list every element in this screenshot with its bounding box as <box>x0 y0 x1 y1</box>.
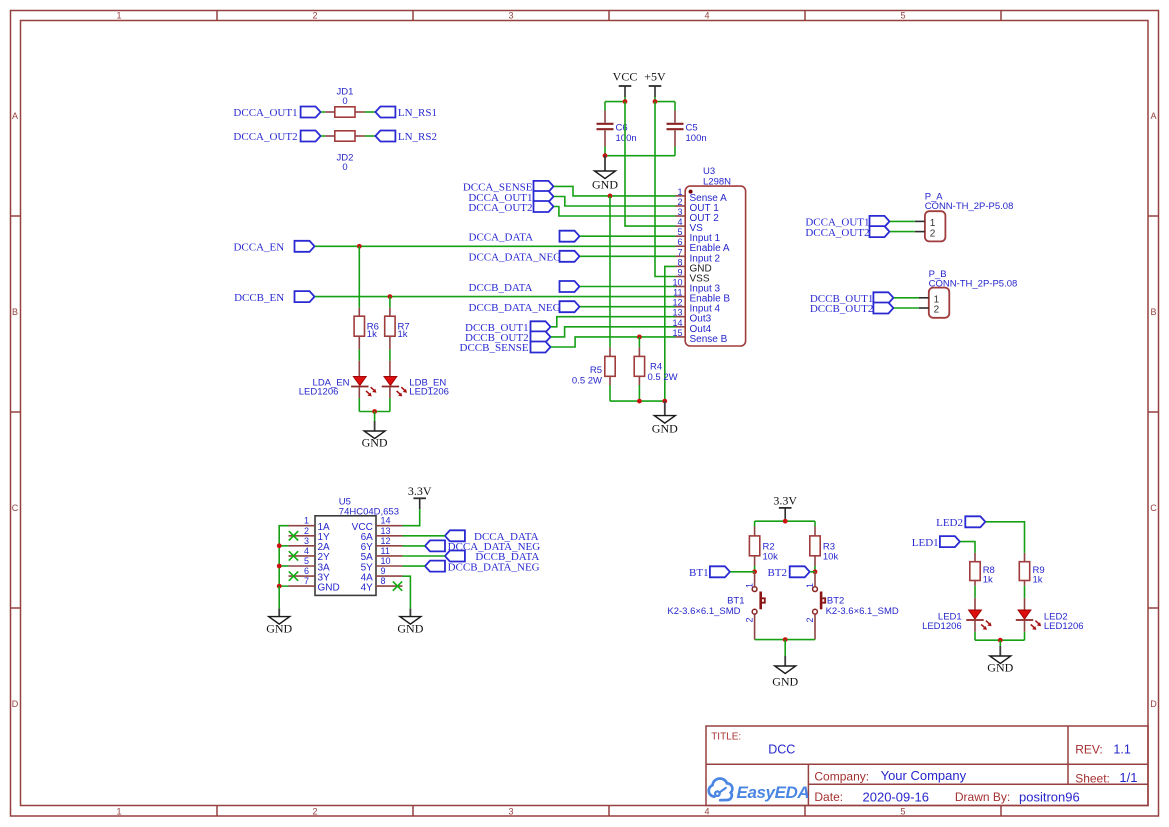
wire to GND (LEDs) <box>999 640 1001 646</box>
wire U5.10 to DCCB_DATA_NEG <box>403 565 426 567</box>
svg-text:C: C <box>1150 503 1157 513</box>
svg-text:3: 3 <box>508 11 513 21</box>
wire R3 to BT2 <box>814 566 816 572</box>
wire R7 to LDB_EN <box>389 350 391 361</box>
pin U3.9 <box>676 276 686 278</box>
pin LDA_EN anode <box>358 361 360 377</box>
wire C6 top <box>604 102 606 111</box>
junction LED GND rail (right) <box>998 638 1003 643</box>
wire DCCA_OUT1 to JD1 <box>321 111 325 113</box>
svg-text:DCCB_DATA_NEG: DCCB_DATA_NEG <box>448 561 540 573</box>
wire LDB_EN to GND rail <box>389 398 391 412</box>
wire BT1 flag to junction <box>730 571 754 573</box>
svg-text:TITLE:: TITLE: <box>711 732 741 743</box>
pin U5.11 <box>376 555 403 557</box>
svg-text:A: A <box>12 111 18 121</box>
LED LDA_EN <box>351 377 376 397</box>
svg-text:DCCB_SENSE: DCCB_SENSE <box>460 342 529 354</box>
wire DCCB_EN down to R7 <box>389 297 391 308</box>
svg-text:9: 9 <box>381 566 386 576</box>
net flag DCCA_OUT2 <box>301 131 321 142</box>
pin P_A.1 <box>915 220 925 222</box>
pin LED1 cathode <box>974 621 976 632</box>
wire DCCA_OUT1 to P_A.1 <box>890 220 915 222</box>
pin R8.1 <box>974 553 976 562</box>
wire GND rail under R4/R5 <box>610 400 665 402</box>
net flag DCCA_OUT1 (U3) <box>534 191 554 202</box>
svg-text:1: 1 <box>805 583 815 588</box>
svg-text:DCC: DCC <box>768 743 795 757</box>
net flag DCCA_SENSE <box>534 181 554 192</box>
svg-text:B: B <box>1150 307 1156 317</box>
wire LDA_EN to GND rail <box>358 398 360 412</box>
svg-text:GND: GND <box>266 621 292 635</box>
svg-text:3: 3 <box>677 207 682 217</box>
junction LED GND rail <box>372 409 377 414</box>
pin R9.1 <box>1024 553 1026 562</box>
resistor JD2 <box>335 131 355 141</box>
resistor R7 <box>385 316 395 336</box>
pin R7.2 <box>389 336 391 349</box>
pin JD2.1 <box>325 135 335 137</box>
svg-text:9: 9 <box>677 268 682 278</box>
svg-text:positron96: positron96 <box>1019 789 1080 804</box>
svg-text:Sheet:: Sheet: <box>1075 771 1110 785</box>
wire rail to U5.5 <box>279 565 288 567</box>
svg-text:K2-3.6×6.1_SMD: K2-3.6×6.1_SMD <box>667 606 740 617</box>
pin R6.1 <box>358 308 360 316</box>
capacitor C5 <box>667 124 684 129</box>
pin U3.11 <box>676 296 686 298</box>
junction +5V <box>653 99 658 104</box>
svg-text:3: 3 <box>508 807 513 817</box>
svg-text:1: 1 <box>116 807 121 817</box>
svg-text:0: 0 <box>342 162 347 173</box>
svg-text:Sense B: Sense B <box>690 334 728 345</box>
wire U5 left GND rail <box>279 526 288 586</box>
wire C6/C5 bottom rail <box>605 155 675 157</box>
pin U5.1 <box>289 525 316 527</box>
net flag LED2 <box>965 516 985 527</box>
net flag BT2 <box>790 566 810 577</box>
svg-text:7: 7 <box>677 247 682 257</box>
wire R4 to GND rail <box>638 385 640 401</box>
pin LED2 cathode <box>1024 621 1026 632</box>
pin LDB_EN cathode <box>389 387 391 398</box>
resistor R6 <box>354 316 364 336</box>
wire R6 to LDA_EN <box>358 350 360 361</box>
wire to GND symbol <box>374 412 376 422</box>
wire to R2 <box>754 521 756 526</box>
svg-text:LN_RS2: LN_RS2 <box>398 131 437 143</box>
pin U3.15 <box>676 336 686 338</box>
wire DCCB_OUT2 to U3.14 <box>551 327 676 337</box>
svg-text:Your Company: Your Company <box>881 768 967 783</box>
wire DCCA_OUT2 to U3.3 <box>554 207 676 217</box>
svg-text:BT1: BT1 <box>727 595 744 606</box>
pin U5.6 <box>289 575 316 577</box>
net flag DCCA_DATA (U5) <box>445 530 465 541</box>
pin R5.1 <box>609 347 611 356</box>
svg-text:Drawn By:: Drawn By: <box>955 790 1010 804</box>
svg-text:DCCB_DATA_NEG: DCCB_DATA_NEG <box>469 302 561 314</box>
wire rail to U5.3 <box>279 545 288 547</box>
net flag LN_RS1 <box>375 107 395 118</box>
svg-text:4Y: 4Y <box>361 582 374 593</box>
pin R7.1 <box>389 308 391 316</box>
svg-text:1k: 1k <box>398 329 408 340</box>
wire U5.11 to DCCB_DATA <box>403 555 445 557</box>
svg-text:GND: GND <box>987 661 1013 675</box>
svg-text:3: 3 <box>304 536 309 546</box>
svg-text:BT2: BT2 <box>767 567 787 579</box>
wire U3.8 GND down <box>665 266 676 401</box>
svg-text:B: B <box>12 307 18 317</box>
wire DCCB_DATA_NEG to U3.12 <box>580 306 676 308</box>
svg-text:6: 6 <box>677 237 682 247</box>
pin U5.13 <box>376 535 403 537</box>
pin U5.12 <box>376 545 403 547</box>
net flag DCCB_DATA (U5) <box>445 551 465 562</box>
wire DCCB_OUT1 to U3.13 <box>551 317 676 327</box>
wire DCCA_EN to U3.6 <box>315 245 676 247</box>
pin U5.10 <box>376 565 403 567</box>
net flag BT1 <box>710 566 730 577</box>
resistor R8 <box>970 562 980 581</box>
svg-text:DCCA_OUT2: DCCA_OUT2 <box>805 227 869 239</box>
svg-text:DCCB_OUT2: DCCB_OUT2 <box>810 303 874 315</box>
wire U5.12 to DCCA_DATA_NEG <box>403 545 426 547</box>
svg-text:REV:: REV: <box>1075 743 1103 757</box>
net flag DCCB_OUT1 (P_B) <box>873 292 893 303</box>
wire +5V stub <box>654 97 656 102</box>
LED LED1 <box>966 610 991 630</box>
wire 3.3V to U5.14 <box>403 509 420 525</box>
pin R3.1 <box>814 527 816 536</box>
svg-text:1/1: 1/1 <box>1119 770 1137 785</box>
svg-text:BT2: BT2 <box>827 595 844 606</box>
wire VCC to C6 <box>605 101 625 103</box>
pin LDB_EN anode <box>389 361 391 377</box>
svg-text:DCCA_EN: DCCA_EN <box>233 242 284 254</box>
pin R2.2 <box>754 556 756 566</box>
wire JD2 to LN_RS2 <box>365 135 376 137</box>
wire DCCB_OUT2 to P_B.2 <box>894 307 919 309</box>
connector P_B body <box>929 288 950 318</box>
svg-text:LED1206: LED1206 <box>1044 621 1084 632</box>
net flag DCCA_OUT2 (P_A) <box>870 226 890 237</box>
svg-text:+5V: +5V <box>644 70 666 84</box>
svg-text:12: 12 <box>381 536 391 546</box>
net flag DCCA_OUT1 <box>301 107 321 118</box>
ground under BT1/BT2 <box>772 656 798 689</box>
wire Sense A rail to R5 <box>609 196 611 347</box>
no-connect U5.6 <box>289 571 298 580</box>
junction R4 bottom <box>637 399 642 404</box>
pin U5.3 <box>289 545 316 547</box>
junction Sense A / R5 <box>608 194 613 199</box>
wire +5V to C5 <box>655 101 675 103</box>
EasyEDA logo <box>709 778 733 800</box>
pin U3.1 <box>676 195 686 197</box>
pin R2.1 <box>754 527 756 536</box>
wire LED1 to R8 <box>960 542 975 553</box>
svg-text:LED2: LED2 <box>936 517 963 529</box>
pin U3.10 <box>676 286 686 288</box>
svg-text:EasyEDA: EasyEDA <box>737 783 810 802</box>
svg-text:1: 1 <box>116 11 121 21</box>
junction BT GND rail <box>783 637 788 642</box>
wire VCC stub <box>624 97 626 102</box>
wire LED2 to R9 <box>986 522 1025 553</box>
wire DCCA_OUT1 to U3.2 <box>554 197 676 207</box>
ground under R4/R5 <box>652 401 678 436</box>
power 3.3V (U5) <box>408 484 432 509</box>
svg-text:VCC: VCC <box>613 70 638 84</box>
svg-text:DCCA_OUT2: DCCA_OUT2 <box>233 131 297 143</box>
svg-text:100n: 100n <box>616 133 637 144</box>
svg-text:11: 11 <box>381 546 390 556</box>
svg-text:1: 1 <box>677 187 682 197</box>
pin P_B.2 <box>919 307 929 309</box>
power 3.3V (BT) <box>773 494 797 519</box>
pin U5.14 <box>376 525 403 527</box>
pin JD1.2 <box>355 111 365 113</box>
no-connect U5.4 <box>289 551 298 560</box>
wire 3.3V rail (BT) <box>755 520 815 522</box>
op-amp U1 substitute: IC U3 body <box>685 186 745 346</box>
no-connect U5.2 <box>289 531 298 540</box>
net flag DCCA_OUT1 (P_A) <box>870 216 890 227</box>
net flag DCCB_DATA_NEG (U3) <box>560 301 580 312</box>
pin C5.1 <box>674 111 676 123</box>
wire BT2 flag to junction <box>810 571 815 573</box>
svg-text:3.3V: 3.3V <box>773 494 797 508</box>
pin R9.2 <box>1024 581 1026 586</box>
pin U5.2 <box>289 535 316 537</box>
svg-text:1: 1 <box>745 583 755 588</box>
capacitor C6 <box>597 124 614 129</box>
wire BT GND rail <box>755 639 815 641</box>
svg-text:LN_RS1: LN_RS1 <box>398 107 437 119</box>
wire GND rail under LEDs <box>359 411 390 413</box>
net flag DCCA_DATA_NEG (U5) <box>425 540 445 551</box>
svg-text:1.1: 1.1 <box>1113 743 1130 757</box>
net flag DCCB_DATA (U3) <box>560 281 580 292</box>
wire DCCB_EN to U3.11 <box>315 296 676 298</box>
svg-text:GND: GND <box>318 582 340 593</box>
svg-text:LED1: LED1 <box>912 537 939 549</box>
U3 pin-1 mark <box>689 190 693 194</box>
net flag DCCB_OUT1 (U3) <box>531 321 551 332</box>
svg-text:4: 4 <box>304 546 309 556</box>
junction 3.3V (BT) <box>783 519 788 524</box>
wire C5 top <box>674 102 676 111</box>
wire +5V rail to U3.9 VSS <box>655 102 676 277</box>
svg-text:2: 2 <box>805 617 815 622</box>
svg-text:Date:: Date: <box>814 790 843 804</box>
svg-text:0.5 2W: 0.5 2W <box>648 372 678 383</box>
svg-text:GND: GND <box>652 422 678 436</box>
net flag DCCB_DATA_NEG (U5) <box>425 561 445 572</box>
pin U3.3 <box>676 215 686 217</box>
wire R5 to GND rail <box>609 385 611 401</box>
svg-text:0.5 2W: 0.5 2W <box>572 375 602 386</box>
connector P_A body <box>925 211 946 241</box>
ground under LED1/LED2 <box>987 646 1013 675</box>
svg-text:GND: GND <box>362 435 388 449</box>
svg-text:5: 5 <box>900 11 905 21</box>
svg-text:8: 8 <box>381 576 386 586</box>
svg-text:4: 4 <box>704 807 709 817</box>
pin U3.6 <box>676 245 686 247</box>
svg-text:8: 8 <box>677 257 682 267</box>
wire R8 to LED1 <box>974 586 976 598</box>
net flag DCCB_OUT2 (U3) <box>531 331 551 342</box>
wire DCCA_EN down to R6 <box>358 246 360 307</box>
svg-text:DCCA_OUT1: DCCA_OUT1 <box>233 107 297 119</box>
wire DCCB_OUT1 to P_B.1 <box>894 297 919 299</box>
svg-text:0: 0 <box>342 96 347 107</box>
pushbutton BT2 <box>813 572 826 640</box>
junction C6 bottom <box>603 153 608 158</box>
resistor R2 <box>749 536 759 556</box>
svg-text:5: 5 <box>900 807 905 817</box>
svg-text:14: 14 <box>381 516 391 526</box>
pin U3.5 <box>676 235 686 237</box>
wire LED GND rail (right) <box>975 639 1025 641</box>
svg-text:2: 2 <box>312 11 317 21</box>
LED LED2 <box>1016 610 1041 630</box>
wire VCC rail to U3.4 VS <box>625 102 676 227</box>
wire DCCB_SENSE to U3.15 <box>551 337 676 347</box>
pin P_A.2 <box>915 231 925 233</box>
junction DCCB_EN / R7 <box>388 294 393 299</box>
pin C6.2 <box>604 130 606 146</box>
svg-text:C6: C6 <box>616 123 628 134</box>
pin R4.2 <box>638 376 640 385</box>
svg-text:3.3V: 3.3V <box>408 484 432 498</box>
svg-text:2: 2 <box>677 197 682 207</box>
svg-text:C5: C5 <box>686 123 698 134</box>
svg-text:CONN-TH_2P-P5.08: CONN-TH_2P-P5.08 <box>925 201 1014 212</box>
svg-text:5: 5 <box>304 556 309 566</box>
pin U3.2 <box>676 205 686 207</box>
power +5V <box>644 70 666 98</box>
pin R5.2 <box>609 376 611 385</box>
junction R2/BT1 <box>752 569 757 574</box>
junction U5.7 <box>277 584 282 589</box>
pin U3.14 <box>676 326 686 328</box>
resistor JD1 <box>335 107 355 117</box>
pin U5.5 <box>289 565 316 567</box>
pin U3.7 <box>676 255 686 257</box>
pin P_B.1 <box>919 297 929 299</box>
pin R4.1 <box>638 347 640 356</box>
svg-text:4: 4 <box>704 11 709 21</box>
svg-text:2: 2 <box>934 305 940 316</box>
wire LED2 to GND rail <box>1024 632 1026 640</box>
pin U3.8 <box>676 265 686 267</box>
svg-text:2: 2 <box>745 617 755 622</box>
ground under U5 left <box>266 609 292 636</box>
pin R6.2 <box>358 336 360 349</box>
svg-text:D: D <box>1150 699 1157 709</box>
svg-text:DCCB_EN: DCCB_EN <box>234 292 284 304</box>
junction GND rail <box>662 399 667 404</box>
pin U5.7 <box>289 585 316 587</box>
wire 3.3V stub (BT) <box>784 519 786 521</box>
net flag DCCA_EN <box>295 241 315 252</box>
wire U5.9 to GND <box>403 576 411 608</box>
resistor R3 <box>810 536 820 556</box>
pin U3.13 <box>676 316 686 318</box>
pin JD1.1 <box>325 111 335 113</box>
junction DCCA_EN / R6 <box>357 244 362 249</box>
wire DCCA_DATA_NEG to U3.7 <box>580 255 676 257</box>
svg-text:13: 13 <box>381 526 391 536</box>
pin R3.2 <box>814 556 816 566</box>
pin C6.1 <box>604 111 606 123</box>
svg-text:GND: GND <box>772 675 798 689</box>
pin U3.4 <box>676 225 686 227</box>
pin LDA_EN cathode <box>358 387 360 398</box>
IC U5 body <box>315 516 376 596</box>
pin U5.8 <box>376 585 403 587</box>
svg-text:Company:: Company: <box>814 769 869 783</box>
pin U3.12 <box>676 306 686 308</box>
junction Sense B / R4 <box>637 335 642 340</box>
power VCC <box>613 70 638 98</box>
no-connect U5.8 <box>393 581 402 590</box>
svg-text:2020-09-16: 2020-09-16 <box>863 789 930 804</box>
wire U5.13 to DCCA_DATA <box>403 535 445 537</box>
pin U5.9 <box>376 575 403 577</box>
svg-text:1k: 1k <box>1033 575 1043 586</box>
svg-text:10k: 10k <box>763 552 779 563</box>
junction VCC <box>623 99 628 104</box>
svg-text:2: 2 <box>304 526 309 536</box>
svg-text:1: 1 <box>304 516 309 526</box>
wire C5 bottom <box>674 147 676 156</box>
svg-text:10: 10 <box>381 556 391 566</box>
svg-text:5: 5 <box>677 227 682 237</box>
wire C6 bottom <box>604 147 606 156</box>
junction U5.3 <box>277 543 282 548</box>
net flag DCCB_EN <box>295 291 315 302</box>
svg-text:C: C <box>12 503 19 513</box>
LED LDB_EN <box>382 377 407 397</box>
svg-text:LED1206: LED1206 <box>922 621 962 632</box>
svg-text:2: 2 <box>930 228 936 239</box>
svg-text:2: 2 <box>312 807 317 817</box>
pin C5.2 <box>674 130 676 146</box>
pin LED1 anode <box>974 598 976 610</box>
net flag DCCA_DATA (U3) <box>560 231 580 242</box>
wire U5 rail to GND <box>278 586 280 608</box>
wire to GND (BT) <box>784 640 786 656</box>
svg-text:DCCA_DATA: DCCA_DATA <box>469 231 534 243</box>
svg-text:7: 7 <box>304 576 309 586</box>
wire DCCA_SENSE to U3.1 <box>554 186 676 196</box>
svg-text:LED1206: LED1206 <box>299 387 339 398</box>
wire JD1 to LN_RS1 <box>365 111 376 113</box>
svg-text:D: D <box>12 699 19 709</box>
pin LED2 anode <box>1024 598 1026 610</box>
svg-text:1k: 1k <box>367 329 377 340</box>
svg-text:GND: GND <box>397 621 423 635</box>
net flag LED1 <box>940 536 960 547</box>
